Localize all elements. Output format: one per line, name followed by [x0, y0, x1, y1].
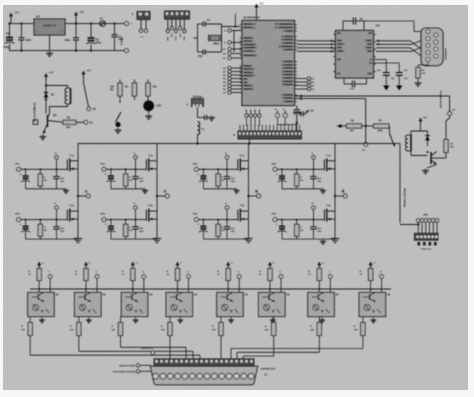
- wire rg bot 1b: [39, 236, 41, 239]
- node A junction: [77, 195, 79, 197]
- ground O2: [86, 318, 92, 322]
- max pin row R0 bar: [369, 32, 372, 34]
- resistor Rb2: [77, 323, 81, 336]
- wire k1 pin8 up: [269, 125, 271, 131]
- ground buzzer: [115, 128, 122, 133]
- wire osc pin 2: [284, 110, 286, 113]
- wire L1 to bus: [197, 135, 199, 144]
- wire O3 enter: [185, 347, 187, 359]
- mcu pin row R7 bar: [286, 49, 293, 51]
- wire r6-r7: [362, 125, 374, 127]
- wire C8 bottom: [90, 45, 92, 51]
- wire opto8 r bot: [370, 281, 372, 293]
- wire rg top 2b: [125, 220, 127, 225]
- capacitor C12: [352, 81, 354, 88]
- wire gate line 3a: [198, 168, 238, 170]
- DB9 pin 6: [434, 47, 438, 51]
- wire cap2 bot 2a: [135, 179, 137, 189]
- terminal tp-r3: [307, 87, 310, 90]
- wire O3 bus: [121, 346, 187, 348]
- transistor Q1: [43, 113, 57, 134]
- capacitor C13: [383, 73, 390, 76]
- junction C5 top: [8, 22, 10, 24]
- resistor Ra4: [175, 269, 179, 281]
- wire db9 top a: [364, 20, 414, 22]
- ground hatched mcu: [293, 112, 300, 115]
- wire mcu-in y42.5: [231, 42, 242, 44]
- wire db9 gnd b: [418, 64, 428, 66]
- wire motor bus: [78, 143, 395, 145]
- wire rg top 1b: [39, 220, 41, 225]
- mcu stub L13: [240, 82, 242, 84]
- wire sconn 1 dn: [421, 222, 423, 233]
- wire O1 out: [29, 317, 31, 323]
- capacitor C8 470u: [86, 38, 96, 44]
- junction r-in 2b: [125, 219, 127, 221]
- wire O6 drop: [273, 336, 275, 357]
- wire osc rail: [278, 124, 297, 126]
- terminal J2-1: [139, 29, 142, 32]
- wire arrow to rail: [10, 18, 12, 24]
- mcu pin row R13 bar: [285, 77, 293, 79]
- resistor Ra5: [226, 269, 230, 281]
- wire cap2 bot 4a: [313, 179, 315, 189]
- wire sw-3: [231, 57, 242, 59]
- junction r1in: [377, 43, 379, 45]
- relay RE1 coil: [65, 88, 71, 104]
- connector K2 pad 1: [423, 242, 426, 245]
- capacitor Ci1b: [21, 226, 30, 232]
- wire opto8 in drop: [381, 279, 383, 293]
- mcu pin row R8 bar: [285, 61, 293, 63]
- wire k1 pin5 up: [258, 125, 260, 131]
- wire prog-0 up: [246, 110, 248, 114]
- capacitor C11 charge: [353, 18, 355, 25]
- wire tp sense: [365, 126, 367, 143]
- wire ICSP pin3: [175, 19, 177, 29]
- wire cap2 bot 4b: [313, 229, 315, 239]
- wire halfbridge 1 vertical: [77, 144, 79, 237]
- connector K2 hole 1: [420, 235, 423, 238]
- wire vsense branch: [198, 117, 205, 119]
- wire gate line 3b: [198, 219, 238, 221]
- wire t2out b: [410, 48, 426, 60]
- ground LED: [145, 114, 152, 119]
- wire opto3 in drop: [143, 279, 145, 293]
- wire O7 gnd stub: [321, 317, 323, 319]
- wire rs to port: [140, 364, 151, 366]
- wire rc bottom rail 3a: [203, 188, 236, 190]
- wire cap2 3b: [226, 220, 228, 227]
- transistor T4b: [324, 204, 335, 222]
- mcu stub R10: [295, 67, 297, 69]
- wire r5 gnd: [417, 78, 419, 81]
- X2 pin 2: [160, 373, 166, 379]
- mcu stub R9: [295, 64, 297, 66]
- junction opto1 bus: [38, 288, 40, 290]
- junction +5V: [75, 22, 77, 24]
- wire c13 gnd: [385, 75, 387, 85]
- terminal opto2 in: [95, 275, 99, 279]
- optocoupler O5 innards: [221, 293, 239, 314]
- wire cap2 1b: [56, 220, 58, 227]
- ground O8: [371, 318, 377, 322]
- regulator IC1 body: [34, 19, 65, 35]
- wire gnd bus bottom: [10, 50, 127, 52]
- wire C9 bottom: [114, 37, 116, 51]
- terminal input 4a: [273, 167, 277, 171]
- wire c14 gnd: [398, 75, 400, 85]
- wire d2 top: [427, 131, 429, 136]
- resistor Rb8: [361, 323, 365, 336]
- junction opto2 bus: [85, 288, 87, 290]
- wire relay2 rail: [411, 130, 428, 132]
- wire incap 1b: [25, 220, 27, 227]
- capacitor Ci1a: [21, 176, 30, 182]
- wire incap bot 1a: [25, 179, 27, 189]
- wire O2 gnd stub: [88, 317, 90, 319]
- power +6V opto1: [37, 262, 44, 268]
- wire cap2 4a: [313, 169, 315, 176]
- wire k1 pin3 up: [250, 125, 252, 131]
- ground O6: [270, 318, 276, 322]
- wire opto5 r bot: [227, 281, 229, 293]
- wire opto3 r bot: [132, 281, 134, 293]
- mcu pin row L1 bar: [244, 27, 252, 29]
- wire sconn 2 dn: [425, 222, 427, 233]
- mcu pin row R14 bar: [285, 80, 293, 82]
- junction c-in 1a: [25, 168, 27, 170]
- ground rc 2a: [142, 189, 148, 194]
- optocoupler O4 body: [166, 293, 193, 317]
- wire opto7 r top: [318, 267, 320, 269]
- wire tp-r0: [295, 78, 308, 80]
- wire k1 pin11 up: [280, 125, 282, 131]
- wire cap to gnd: [207, 117, 212, 119]
- wire halfbridge 2 vertical: [156, 144, 158, 237]
- ground halfbridge 4: [331, 236, 340, 243]
- terminal sconn 1: [420, 219, 424, 223]
- wire mcu-max 1: [297, 43, 336, 45]
- wire rg bot 3a: [217, 186, 219, 189]
- terminal mcu-in y30.5: [228, 29, 231, 32]
- junction tp 2b: [135, 219, 137, 221]
- wire C7 bottom: [75, 40, 77, 51]
- oscillator pin circle 1: [275, 113, 279, 117]
- wire ICSP pin1: [167, 19, 169, 29]
- wire rg bot 3b: [217, 236, 219, 239]
- wire sconn 3 dn: [429, 222, 431, 233]
- mcu pin row R11 bar: [285, 71, 293, 73]
- wire incap bot 2a: [110, 179, 112, 189]
- wire prog-0 down: [246, 117, 248, 126]
- capacitor Cg4b: [310, 227, 316, 229]
- wire incap bot 2b: [110, 229, 112, 239]
- wire incap bot 1b: [25, 229, 27, 239]
- capacitor Ci2b: [106, 226, 115, 232]
- wire O8 enter: [230, 349, 232, 359]
- ground O4: [177, 318, 183, 322]
- wire rc bottom rail 1a: [26, 188, 66, 190]
- mcu pin row R9 bar: [285, 64, 293, 66]
- connector K2 hole 3: [427, 235, 430, 238]
- resistor R3: [132, 83, 136, 96]
- wire bus right ext: [395, 143, 401, 145]
- IC3 MAX232 body: [336, 31, 374, 79]
- wire O8 bus: [231, 348, 363, 350]
- wire C5 stub: [9, 24, 11, 37]
- wire C5 bottom: [9, 44, 11, 51]
- terminal opto6 in: [279, 275, 283, 279]
- X2 pin 11: [226, 373, 232, 379]
- wire prog-1 down: [250, 117, 252, 126]
- wire tp-r2: [295, 85, 308, 87]
- junction q2 collector: [427, 151, 429, 153]
- wire cap2 bot 1b: [56, 229, 58, 239]
- mcu stub R13: [295, 77, 297, 79]
- resistor Ra2: [84, 269, 88, 281]
- wire sconn 5 dn: [436, 222, 438, 233]
- wire sw-2: [231, 53, 242, 55]
- terminal sw-1: [228, 47, 231, 50]
- junction r-in 1a: [39, 168, 41, 170]
- mcu stub L6: [240, 50, 242, 52]
- junction mcu-max 3: [330, 50, 332, 52]
- terminal rb4: [228, 80, 231, 83]
- optocoupler O7 body: [308, 293, 335, 317]
- wire tp drop 3b: [226, 209, 228, 219]
- inductor L1: [198, 122, 200, 135]
- terminal input 1b: [17, 218, 21, 222]
- wire rb3: [231, 78, 242, 80]
- resistor Rg4b: [295, 224, 299, 236]
- mcu stub L1: [240, 27, 242, 29]
- mcu stub L15: [240, 88, 242, 90]
- ground halfbridge 3: [244, 236, 253, 243]
- junction t1out: [377, 40, 379, 42]
- junction r-in 4b: [296, 219, 298, 221]
- terminal opto7 in: [328, 275, 332, 279]
- wire tp drop 1a: [56, 159, 58, 169]
- capacitor Ci4b: [278, 226, 287, 232]
- resistor Rg4a: [295, 174, 299, 186]
- wire max c2b stub: [343, 78, 345, 84]
- power +6V arrow relay: [44, 71, 54, 81]
- wire mcu sense line: [295, 98, 366, 100]
- wire O8 drop: [362, 336, 364, 349]
- wire tp drop 1b: [56, 209, 58, 219]
- wire opto4 r bot: [177, 281, 179, 293]
- test point 4b: [312, 206, 316, 210]
- relay switch SW2: [390, 134, 395, 147]
- DB9 pin 2: [434, 33, 438, 37]
- test point 1b: [55, 206, 59, 210]
- wire incap bot 4a: [281, 179, 283, 189]
- terminal opto4 in: [187, 275, 191, 279]
- capacitor Cg3a: [224, 177, 230, 179]
- junction tp 1b: [56, 219, 58, 221]
- resistor Rb5: [219, 323, 223, 336]
- wire tp drop 2a: [135, 159, 137, 169]
- wire node B2 tap: [335, 195, 343, 197]
- wire sw-1: [231, 48, 242, 50]
- wire O8 out: [362, 317, 364, 323]
- mcu pin row R18 bar: [286, 101, 293, 103]
- wire halfbridge 3 vertical: [248, 144, 250, 237]
- junction tp 3b: [226, 219, 228, 221]
- transistor T3b: [238, 204, 249, 222]
- wire r7 right: [388, 125, 391, 127]
- X2 pin 13: [241, 373, 247, 379]
- mcu stub L14: [240, 85, 242, 87]
- wire k1 pin15 up: [295, 125, 297, 131]
- wire cap2 4b: [313, 220, 315, 227]
- wire C6 bottom: [21, 40, 23, 51]
- wire cap2 1a: [56, 169, 58, 176]
- wire gate line 1a: [21, 168, 68, 170]
- mcu stub L8: [240, 65, 242, 67]
- test point 2b: [134, 206, 138, 210]
- mcu pin row L5 bar: [244, 47, 255, 49]
- junction c-in 3b: [202, 219, 204, 221]
- terminal input 2a: [102, 167, 106, 171]
- capacitor Cg2b: [132, 227, 138, 229]
- wire C7 stub: [75, 24, 77, 38]
- optocoupler O4 innards: [170, 293, 188, 314]
- power +6V opto4: [176, 262, 183, 268]
- test point 2a: [134, 156, 138, 160]
- wire cap2 3a: [226, 169, 228, 176]
- power +6V opto2: [84, 262, 91, 268]
- wire sconn 4 dn: [432, 222, 434, 233]
- mcu stub L0: [240, 23, 242, 25]
- wire rg top 3b: [217, 220, 219, 225]
- junction C8 bottom: [90, 49, 92, 51]
- mcu pin row R5 bar: [284, 42, 293, 44]
- wire c2 left: [198, 23, 204, 25]
- wire k1 pin9 up: [272, 125, 274, 131]
- mcu stub R11: [295, 71, 297, 73]
- wire rb0: [231, 67, 242, 69]
- wire halfbridge 4 vertical: [334, 144, 336, 237]
- wire c11 left: [343, 20, 353, 22]
- max pin row L4 bar: [337, 50, 343, 52]
- mcu pin row L11 bar: [244, 75, 252, 77]
- optocoupler O3 body: [121, 293, 148, 317]
- junction relay top: [45, 84, 47, 86]
- DB9 pin 3: [426, 36, 430, 40]
- wire O2 out: [78, 317, 80, 323]
- resistor Rg3b: [216, 224, 220, 236]
- junction opto8 bus: [370, 288, 372, 290]
- max pin row R7 bar: [369, 73, 372, 75]
- transistor T1a: [67, 153, 78, 171]
- transistor T3a: [238, 153, 249, 171]
- connector K2 pad 2: [429, 242, 432, 245]
- connector X2 parallel pins: [154, 359, 254, 366]
- wire opto6 r bot: [269, 281, 271, 293]
- mcu pin row R15 bar: [285, 84, 293, 86]
- ground halfbridge 2: [153, 236, 162, 243]
- wire r8 bottom: [445, 153, 447, 159]
- wire incap 4b: [281, 220, 283, 227]
- resistor R2: [118, 83, 122, 96]
- power +6V opto3: [131, 262, 138, 268]
- ground O5: [228, 318, 234, 322]
- battery connector box: [33, 120, 38, 125]
- terminal rb2: [228, 73, 231, 76]
- optocoupler O8 body: [359, 293, 386, 317]
- X2 pin 9: [211, 373, 217, 379]
- connector K2 hole 2: [424, 235, 427, 238]
- wire opto7 in drop: [329, 279, 331, 293]
- mcu stub R4: [295, 39, 297, 41]
- terminal tp-r0: [307, 77, 310, 80]
- wire rg top 2a: [125, 169, 127, 174]
- terminal 5v note: [151, 351, 155, 355]
- junction r-in 4a: [296, 168, 298, 170]
- DB9 pin 7: [426, 50, 430, 54]
- wire opto8 r top: [370, 267, 372, 269]
- wire opto1 r top: [38, 267, 40, 269]
- wire gate line 2b: [106, 219, 146, 221]
- junction bus K1: [248, 142, 250, 144]
- wire c3 left: [198, 51, 204, 53]
- wire tp drop 4a: [313, 159, 315, 169]
- wire opto4 r top: [177, 267, 179, 269]
- ground Q2: [422, 169, 429, 174]
- wire node A tap: [78, 195, 86, 197]
- capacitor C3 osc: [203, 50, 205, 55]
- wire incap 1a: [25, 169, 27, 176]
- terminal ICSP-1: [166, 30, 169, 33]
- junction c-in 3a: [202, 168, 204, 170]
- terminal sconn 5: [435, 219, 439, 223]
- resistor Rg2a: [123, 174, 127, 186]
- wire c14 feed b: [398, 63, 400, 73]
- LED LD1: [143, 100, 154, 111]
- wire sconn 0 dn: [417, 222, 419, 233]
- wire mcu antenna line: [295, 95, 450, 97]
- junction r-in 3b: [217, 219, 219, 221]
- wire O7 out: [318, 317, 320, 323]
- wire r8 top: [445, 121, 447, 140]
- power +6V opto8: [369, 262, 376, 268]
- mcu stub R14: [295, 81, 297, 83]
- terminal ICSP-4: [179, 27, 182, 30]
- terminal relay input: [84, 120, 88, 124]
- terminal sconn 2: [424, 219, 428, 223]
- ground rc 4a: [320, 189, 326, 194]
- junction r-in 3a: [217, 168, 219, 170]
- mcu stub R12: [295, 74, 297, 76]
- wire k1 pin7 up: [265, 125, 267, 131]
- terminal opto8 in: [380, 275, 384, 279]
- terminal rb1: [228, 70, 231, 73]
- terminal input 3b: [194, 218, 198, 222]
- wire R3 bottom: [134, 96, 136, 100]
- mcu pin row R12 bar: [285, 74, 293, 76]
- wire c12 right: [355, 83, 367, 85]
- mcu pin row L12 bar: [244, 78, 247, 80]
- DB9 pin 1: [426, 29, 430, 33]
- terminal input 2b: [102, 218, 106, 222]
- wire rg top 4b: [296, 220, 298, 225]
- wire db9 top c: [414, 31, 426, 33]
- wire max c1+ stub: [342, 21, 344, 31]
- wire rc bottom rail 1b: [26, 238, 78, 240]
- capacitor C10: [301, 111, 303, 116]
